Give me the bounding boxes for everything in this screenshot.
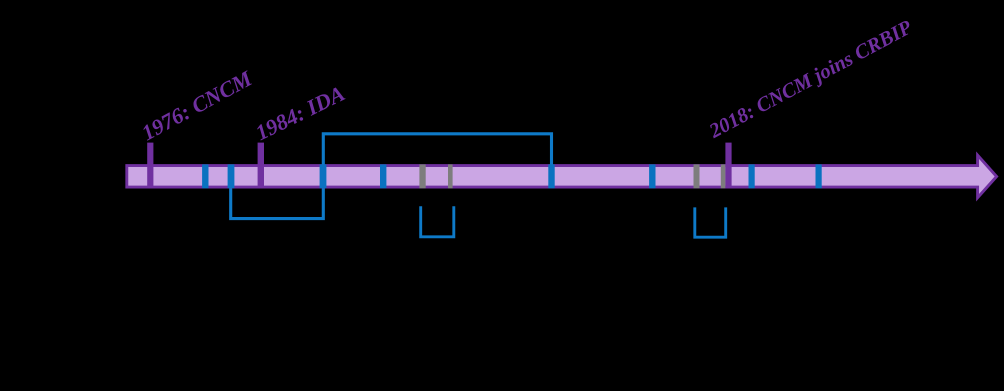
lower-left blue bracket	[231, 189, 324, 219]
purple tick 1984	[258, 143, 264, 189]
svg-text:2018: CNCM joins CRBIP: 2018: CNCM joins CRBIP	[705, 16, 916, 143]
top blue bracket	[323, 134, 551, 165]
blue tick 1999	[202, 164, 208, 188]
blue tick top-bracket right	[548, 164, 554, 188]
blue tick mid	[380, 164, 386, 188]
small blue bracket A	[421, 206, 454, 237]
timeline block arrow	[127, 155, 997, 198]
gray tick pair-1 right	[448, 164, 453, 188]
blue tick right-1	[649, 164, 655, 188]
svg-text:1976: CNCM: 1976: CNCM	[137, 65, 257, 146]
blue tick right-3	[816, 164, 822, 188]
small blue bracket B	[695, 207, 726, 237]
blue tick 2002 (bracket left)	[228, 164, 235, 188]
gray tick pair-2 right	[721, 164, 726, 188]
purple tick 2018	[725, 143, 731, 189]
purple tick 1976	[147, 143, 153, 189]
gray tick pair-2 left	[694, 164, 700, 188]
blue tick right-2	[749, 164, 755, 188]
blue tick 2008 (bracket junction)	[320, 164, 327, 188]
gray tick pair-1 left	[419, 164, 425, 188]
svg-text:1984: IDA: 1984: IDA	[251, 80, 348, 145]
